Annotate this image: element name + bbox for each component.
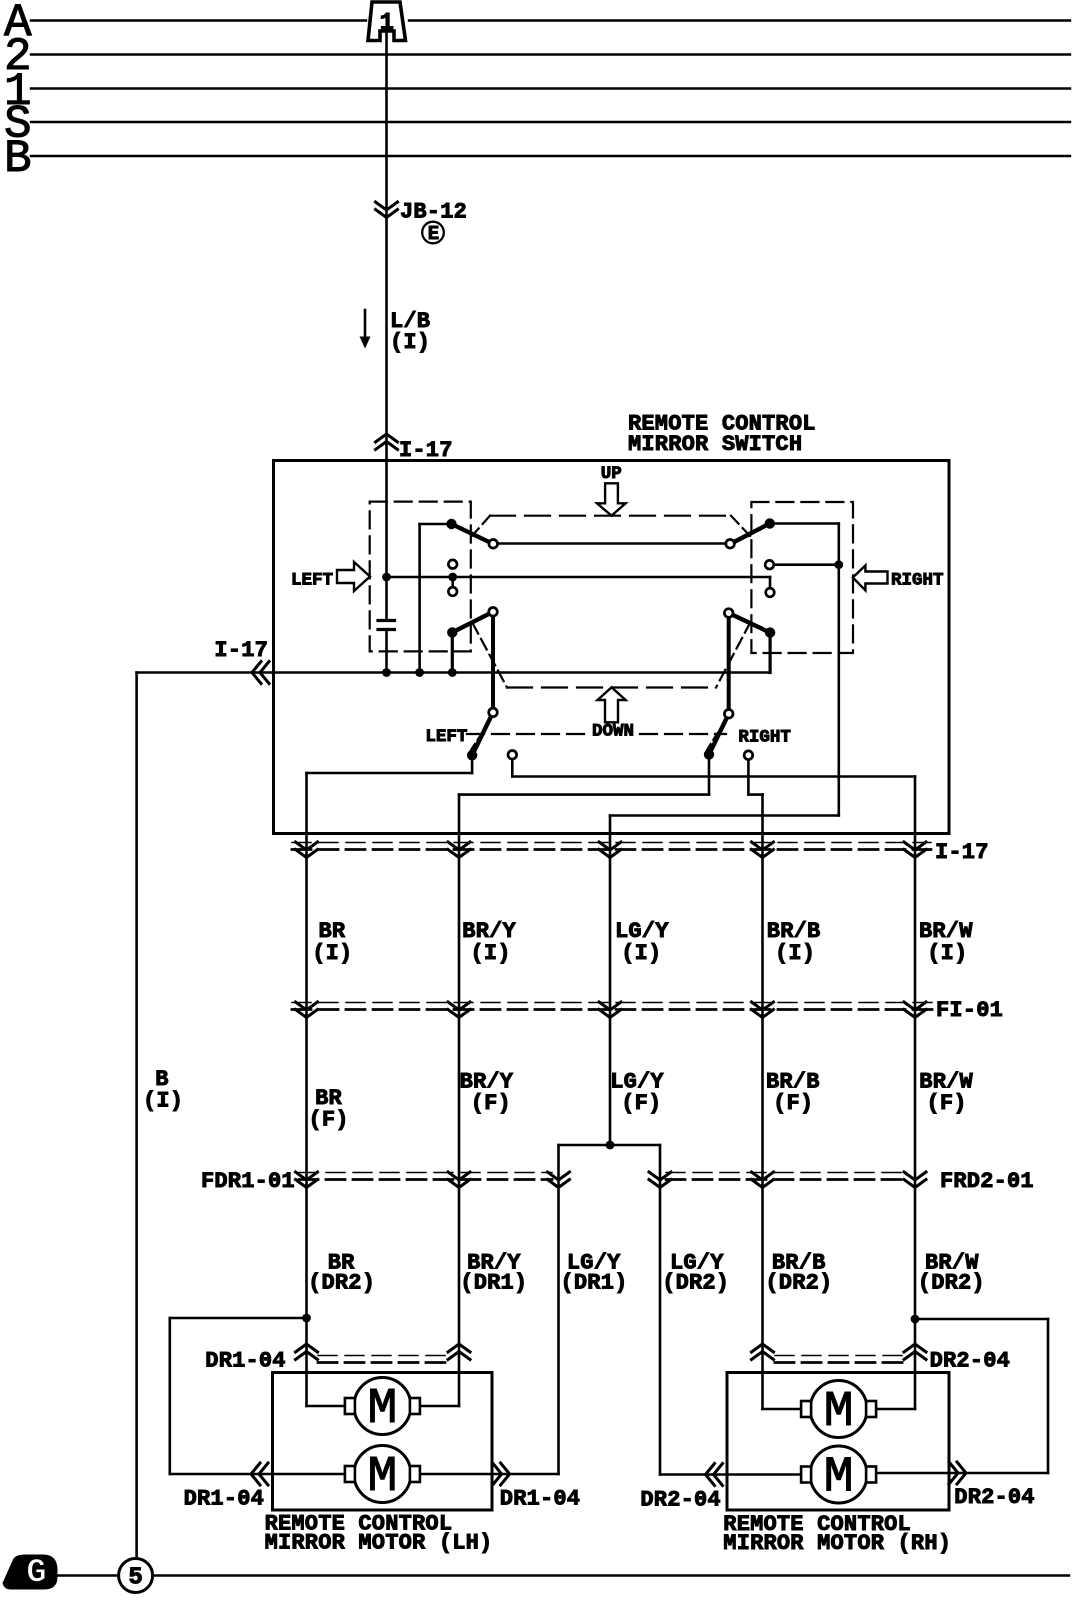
svg-text:MIRROR MOTOR (LH): MIRROR MOTOR (LH) <box>265 1531 493 1556</box>
svg-text:(I): (I) <box>775 941 815 966</box>
svg-text:FDR1-01: FDR1-01 <box>201 1169 295 1194</box>
svg-text:M: M <box>367 1449 397 1506</box>
svg-text:LEFT: LEFT <box>291 570 333 590</box>
svg-text:(I): (I) <box>390 330 430 355</box>
svg-text:(DR1): (DR1) <box>561 1271 628 1296</box>
svg-text:M: M <box>824 1384 854 1441</box>
svg-text:(DR1): (DR1) <box>460 1271 527 1296</box>
svg-text:DR1-04: DR1-04 <box>500 1487 580 1512</box>
svg-text:RIGHT: RIGHT <box>891 570 944 590</box>
svg-text:DR1-04: DR1-04 <box>184 1487 264 1512</box>
svg-text:(F): (F) <box>773 1091 813 1116</box>
svg-text:M: M <box>367 1381 397 1438</box>
svg-text:I-17: I-17 <box>935 840 989 865</box>
svg-text:(DR2): (DR2) <box>662 1271 729 1296</box>
svg-text:RIGHT: RIGHT <box>738 728 791 748</box>
svg-text:(DR2): (DR2) <box>308 1271 375 1296</box>
svg-text:DR2-04: DR2-04 <box>640 1488 720 1513</box>
svg-text:G: G <box>26 1555 46 1593</box>
svg-text:(F): (F) <box>309 1108 349 1133</box>
svg-text:MIRROR MOTOR (RH): MIRROR MOTOR (RH) <box>723 1531 951 1556</box>
svg-text:DOWN: DOWN <box>592 721 634 741</box>
svg-text:5: 5 <box>128 1565 142 1592</box>
svg-text:DR1-04: DR1-04 <box>205 1348 285 1373</box>
svg-text:(I): (I) <box>143 1089 183 1114</box>
svg-text:LEFT: LEFT <box>425 727 467 747</box>
svg-text:(I): (I) <box>927 941 967 966</box>
svg-text:(DR2): (DR2) <box>765 1271 832 1296</box>
svg-text:M: M <box>824 1450 854 1507</box>
svg-text:DR2-04: DR2-04 <box>954 1485 1034 1510</box>
svg-text:(F): (F) <box>471 1091 511 1116</box>
svg-text:E: E <box>428 223 439 245</box>
svg-text:(I): (I) <box>312 941 352 966</box>
svg-text:(I): (I) <box>621 941 661 966</box>
svg-text:FRD2-01: FRD2-01 <box>940 1169 1034 1194</box>
svg-text:(DR2): (DR2) <box>918 1271 985 1296</box>
svg-text:MIRROR SWITCH: MIRROR SWITCH <box>628 432 802 457</box>
svg-text:UP: UP <box>601 464 622 484</box>
svg-text:I-17: I-17 <box>214 638 268 663</box>
svg-text:DR2-04: DR2-04 <box>930 1349 1010 1374</box>
svg-text:(F): (F) <box>927 1091 967 1116</box>
svg-text:B: B <box>4 133 32 185</box>
svg-text:(I): (I) <box>471 941 511 966</box>
svg-text:FI-01: FI-01 <box>936 998 1003 1023</box>
svg-text:(F): (F) <box>621 1091 661 1116</box>
